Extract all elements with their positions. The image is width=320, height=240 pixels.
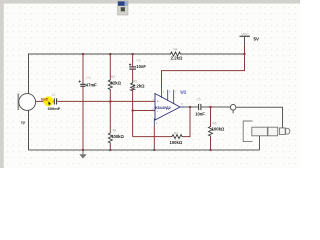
op-amp U1 [154, 87, 186, 126]
wire top rail [29, 54, 170, 101]
svg-text:C4: C4 [136, 58, 140, 62]
resistor R6 [209, 122, 225, 137]
junction R1/ground rail [109, 149, 111, 151]
svg-text:100kΩ: 100kΩ [170, 140, 183, 145]
audio jack XS (housing) [243, 121, 290, 142]
svg-text:100kΩ: 100kΩ [212, 127, 225, 132]
svg-text:C3: C3 [86, 76, 90, 80]
wire VCC drop to rail and op-amp supply [244, 45, 246, 54]
minimized window icon [118, 1, 129, 15]
svg-text:+: + [157, 99, 159, 103]
wire C1 to op-amp + input [57, 100, 155, 102]
svg-text:R6: R6 [212, 122, 216, 126]
wire C4 to R5 [132, 69, 134, 82]
resistor R4 [169, 48, 183, 61]
junction feedback/output [189, 106, 191, 108]
resistor R3 [170, 132, 184, 145]
wire bubble to jack tip [236, 107, 283, 128]
wire C4 chain from rail [132, 54, 134, 66]
svg-text:47mF: 47mF [86, 82, 97, 87]
junction VCC/rail [244, 53, 246, 55]
ground symbol [79, 150, 86, 159]
wire R5 to node B and op-amp inverting input [133, 92, 155, 111]
svg-text:R1: R1 [113, 129, 117, 133]
VCC power symbol [240, 32, 259, 45]
svg-text:R5: R5 [133, 79, 137, 83]
svg-text:10nF: 10nF [195, 112, 205, 117]
svg-text:62kΩ: 62kΩ [111, 81, 122, 86]
svg-text:600mF: 600mF [48, 106, 61, 111]
wire R2 to node A [109, 91, 111, 102]
jack barrel [252, 127, 268, 136]
junction V-/ground rail [153, 149, 155, 151]
wire op-amp V- to ground rail [153, 126, 155, 150]
svg-text:R4: R4 [174, 48, 178, 52]
node bubble (output port) [230, 105, 236, 111]
wire R2 chain from rail [109, 54, 111, 79]
resistor R2 [108, 75, 121, 91]
output row wire to C5 [184, 106, 198, 108]
svg-text:U1: U1 [180, 89, 186, 94]
wire C3 to ground rail [82, 87, 84, 150]
junction ground/rail [82, 149, 84, 151]
capacitor C1 [48, 93, 61, 111]
wire C3 chain from rail [82, 54, 84, 84]
jack tip [286, 128, 290, 134]
capacitor C4 polarized [129, 58, 146, 69]
mouse cursor [48, 101, 51, 105]
wire R6 to ground rail [210, 137, 212, 150]
junction rail/C3 [82, 53, 84, 55]
junction output/R6 [210, 106, 212, 108]
feedback row wire [133, 136, 171, 138]
jack ring [279, 128, 285, 135]
wire mic output row [36, 100, 54, 102]
svg-text:5V: 5V [254, 36, 259, 41]
svg-text:2.2kΩ: 2.2kΩ [133, 84, 145, 89]
wire R3 to output node [183, 107, 190, 137]
wire node A to R1 [109, 101, 111, 132]
svg-text:rp: rp [21, 119, 26, 124]
ground rail wire [29, 149, 260, 151]
svg-text:6m5: 6m5 [41, 98, 48, 102]
junction node A [109, 100, 111, 102]
capacitor C5 [195, 98, 205, 117]
svg-text:C5: C5 [197, 98, 201, 102]
svg-text:2.2kΩ: 2.2kΩ [171, 55, 183, 60]
junction rail/R2 [109, 53, 111, 55]
wire mic bottom to ground rail [28, 110, 30, 150]
click highlight [43, 96, 54, 107]
resistor R1 [108, 129, 124, 144]
svg-text:C1: C1 [52, 93, 56, 97]
window top band [0, 0, 300, 4]
svg-text:10nF: 10nF [136, 64, 146, 69]
junction R6/ground rail [210, 149, 212, 151]
junction rail/C4 [132, 53, 134, 55]
node bubble stub [232, 110, 234, 113]
capacitor C3 polarized [79, 76, 98, 87]
wire node B down to feedback row [132, 111, 134, 137]
output row wire C5 to jack corner [202, 106, 231, 108]
svg-text:R2: R2 [111, 75, 115, 79]
wire R6 from output row [210, 107, 212, 126]
junction node B [132, 110, 134, 112]
svg-text:100kΩ: 100kΩ [111, 134, 124, 139]
wire R1 to ground rail [109, 144, 111, 150]
wire jack sleeve to ground rail [259, 136, 261, 150]
wire VCC to op-amp V+ [162, 54, 245, 88]
microphone BM (circle with plate) [18, 94, 35, 125]
canvas background with dot grid [0, 0, 300, 168]
window left band [0, 0, 4, 168]
wire top rail right segment [181, 53, 245, 55]
resistor R5 [131, 79, 146, 91]
